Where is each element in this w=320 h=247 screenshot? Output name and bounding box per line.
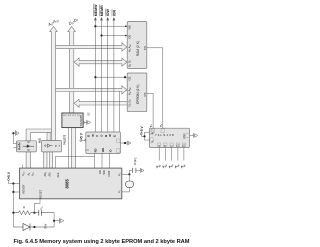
svg-text:X₁: X₁ (117, 190, 121, 193)
wire: bus branch RAM D0-D7 double arrow (74, 58, 127, 66)
wire: RD to control decoder (94, 153, 96, 168)
svg-text:IO: IO (109, 149, 113, 152)
svg-text:OE: OE (88, 112, 91, 116)
svg-text:IOR: IOR (112, 10, 116, 17)
svg-text:OE: OE (127, 76, 131, 80)
wire: IO/M to control decoder (109, 153, 111, 168)
svg-text:74LS138: 74LS138 (155, 133, 175, 137)
+5V supply at control decoder (79, 132, 86, 141)
svg-text:Fig. 6.4.5 Memory system using: Fig. 6.4.5 Memory system using 2 kbyte E… (14, 239, 190, 245)
svg-text:D₀ D₇: D₀ D₇ (127, 100, 131, 107)
ground at capacitor (140, 168, 144, 173)
label: IOR (112, 9, 116, 16)
svg-text:IO/M: IO/M (107, 171, 111, 177)
svg-text:A₈: A₈ (18, 143, 21, 146)
wire: address bus vertical with arrow (50, 27, 58, 141)
svg-text:AD₇: AD₇ (48, 172, 52, 177)
ground at address buffer (12, 130, 19, 147)
svg-text:G: G (87, 149, 90, 151)
wire: ALE line (56, 156, 95, 168)
svg-text:D₀ D₇: D₀ D₇ (127, 60, 131, 67)
svg-text:U: U (95, 135, 99, 137)
chip U8 address latch (42, 141, 62, 152)
svg-text:A₈: A₈ (27, 173, 31, 176)
svg-text:RAM (2 K): RAM (2 K) (136, 41, 140, 56)
capacitor 15pF (132, 158, 140, 173)
ground at reset circuit (60, 218, 64, 223)
crystal X1 (122, 174, 134, 192)
svg-text:74LS373: 74LS373 (63, 134, 66, 145)
wire: switch to ground (53, 213, 60, 227)
svg-text:RD: RD (94, 148, 98, 152)
resistor R (12, 206, 35, 215)
chip U7 address buffer A8-15 (17, 141, 37, 152)
wire: latch input bus 2 (50, 152, 53, 168)
svg-text:OE: OE (127, 35, 131, 39)
svg-text:AD₀: AD₀ (43, 172, 47, 177)
svg-text:E₂: E₂ (183, 144, 186, 147)
wire: latch output stub into chip D (47, 133, 50, 141)
svg-text:+5 V: +5 V (7, 171, 11, 179)
wire: RAM OE from control line (102, 35, 128, 37)
label: IOW (106, 9, 110, 17)
svg-text:D: D (87, 135, 91, 137)
ground at data buffer OE (83, 120, 90, 125)
svg-text:WE: WE (127, 25, 131, 30)
ground at decoder right (190, 133, 198, 138)
svg-text:A₀ A₁₀: A₀ A₁₀ (127, 44, 131, 52)
wire: A8-A15 bus from buffer to address bus (26, 129, 51, 141)
svg-text:WR: WR (102, 170, 106, 174)
svg-text:ALE: ALE (56, 172, 60, 177)
chip U1 8085 microprocessor (20, 168, 122, 199)
svg-text:E₂: E₂ (177, 144, 180, 147)
svg-text:S/W: S/W (43, 223, 47, 229)
svg-text:+5 V: +5 V (79, 132, 83, 140)
wire: AD bus 8085 to data buffer (71, 128, 75, 169)
chip U5 address decoder 74LS138 (149, 128, 189, 147)
switch S/W (34, 207, 54, 229)
junction dots at RAM pin entries (125, 25, 127, 27)
svg-text:RD: RD (98, 170, 102, 174)
chip U4 EPROM 2K (127, 73, 147, 112)
wire: decoder address inputs A11-A15 (159, 148, 184, 161)
wire: bus branch from EPROM D0-D7 (74, 99, 127, 107)
svg-text:W: W (108, 134, 112, 137)
wire: latch input bus 1 (44, 152, 47, 168)
svg-text:A₁₅: A₁₅ (31, 172, 35, 176)
wire: reset junction to RESET pin (34, 199, 40, 213)
wire: EPROM CS to decoder Y0 (147, 93, 153, 128)
wire: MEMW control line (94, 17, 97, 132)
junction dots on control lines (94, 25, 96, 27)
svg-text:A₀ A₁₀: A₀ A₁₀ (127, 87, 131, 95)
svg-text:B: B (104, 135, 108, 137)
wire: RAM WE from control line (95, 25, 127, 27)
chip U3 RAM 2K (127, 22, 147, 69)
pin marks chip C and D (27, 141, 29, 143)
diode D1 (13, 224, 54, 231)
svg-text:MEMW: MEMW (94, 4, 98, 16)
wire: IOR control line (113, 17, 116, 132)
ground at control decoder right (120, 141, 131, 146)
svg-text:A₁₅: A₁₅ (18, 146, 21, 150)
wire: A8-15 bus buffer to 8085 (26, 152, 31, 168)
svg-text:EPROM (2 K): EPROM (2 K) (136, 85, 140, 104)
wire: X2 to crystal (122, 170, 133, 175)
wire: WR to control decoder (101, 153, 103, 168)
svg-text:E: E (112, 135, 116, 137)
svg-text:O: O (100, 135, 104, 137)
svg-text:C: C (170, 145, 173, 147)
wire: fifth control line to EPROM area (119, 91, 121, 132)
svg-text:D: D (55, 145, 57, 148)
svg-text:ALE: ALE (38, 138, 41, 143)
+5V supply at decoder (140, 125, 150, 140)
svg-text:CS: CS (143, 92, 147, 96)
svg-text:WR: WR (101, 148, 105, 152)
wire: bus branch to RAM A0-A10 (56, 43, 127, 51)
label: MEMW (94, 4, 98, 17)
label: MEMR (100, 5, 104, 17)
svg-text:READY: READY (22, 184, 26, 193)
wire: data bus vertical with arrow (68, 27, 76, 114)
wire: Vcc stub above 8085 (22, 165, 24, 169)
svg-text:X₂: X₂ (117, 173, 121, 176)
wire: IOW control line (106, 17, 109, 132)
svg-text:+5 V: +5 V (140, 125, 144, 133)
wire: RAM CS to decoder Y1 (147, 48, 163, 128)
svg-text:W: W (91, 134, 95, 137)
svg-text:74LS245: 74LS245 (79, 115, 83, 127)
svg-text:15 pF: 15 pF (133, 158, 137, 165)
svg-text:8085: 8085 (65, 179, 70, 189)
chip U2 data buffer (62, 113, 83, 128)
svg-text:IOW: IOW (106, 9, 110, 17)
svg-text:RESET: RESET (39, 189, 43, 198)
svg-text:MEMR: MEMR (100, 5, 104, 16)
wire: latch enable from chip A (68, 128, 70, 169)
wire: +5V rail down to reset circuit (12, 192, 14, 227)
+5V supply at 8085 (7, 171, 20, 193)
chip U6 control signal decoder (86, 132, 121, 153)
wire: bus branch to EPROM A0-A10 (56, 86, 127, 94)
wire: EPROM OE from control line (95, 76, 127, 78)
wire: MEMR control line (100, 17, 103, 132)
svg-text:CS: CS (143, 46, 147, 50)
